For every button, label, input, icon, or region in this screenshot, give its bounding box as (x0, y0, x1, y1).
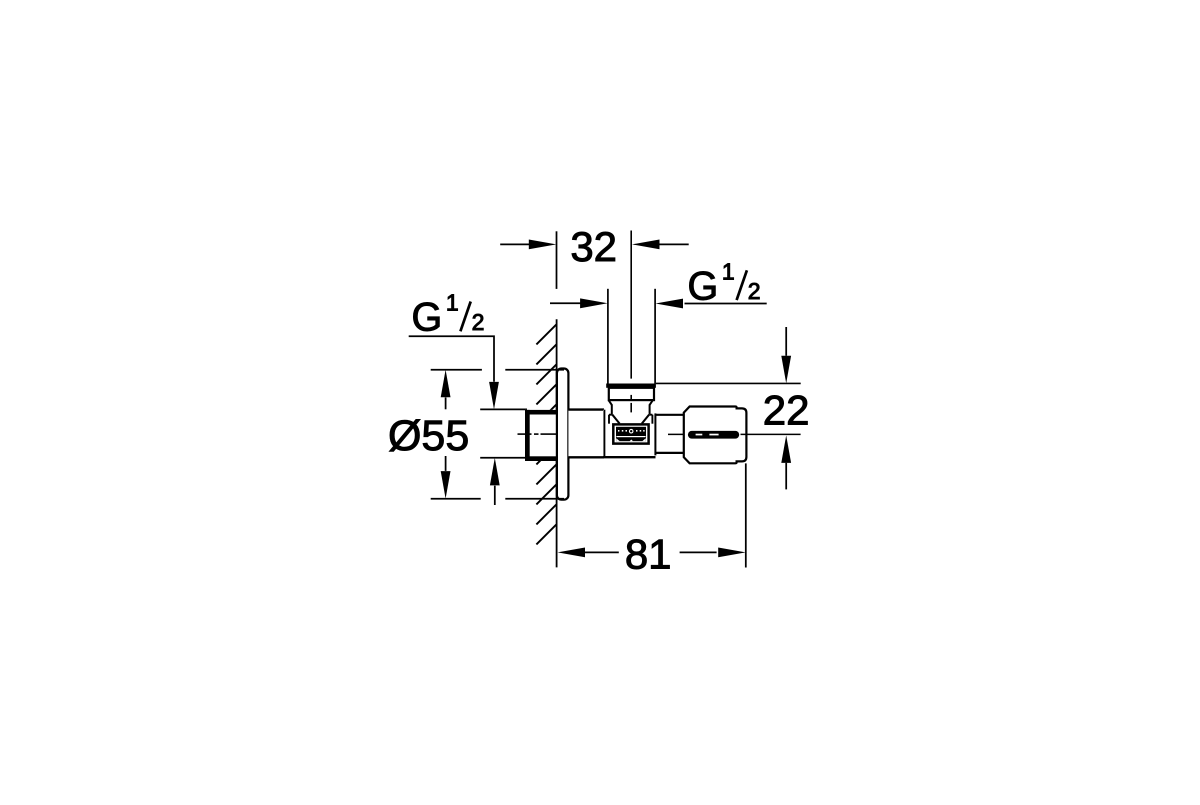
wall hatching (536, 324, 556, 544)
dim 81 arrow right (718, 548, 746, 558)
dim dia55 dimension line lower (445, 456, 447, 471)
dim G1/2 outlet dimension line left (550, 302, 581, 304)
dim 32 arrow right (632, 240, 660, 250)
logo plate (613, 424, 648, 443)
outlet shoulder band (thick) (606, 384, 656, 388)
arrow up to inlet pipe bottom (494, 486, 496, 505)
dim 32 dimension line left (500, 243, 530, 245)
dim 32 arrow left (529, 240, 557, 250)
dim G1/2 outlet arrow left (580, 298, 608, 308)
centerline left (dash-dot) (518, 433, 557, 435)
dim 22 dimension line upper (785, 327, 787, 356)
outlet funnel throat (609, 400, 653, 415)
dim 22 dimension line lower (785, 463, 787, 490)
wall line (556, 319, 558, 567)
dia55 extension line bottom (431, 498, 564, 500)
centerline right (before nut) (668, 433, 685, 435)
fraction slash (inlet) (460, 302, 470, 332)
right neck (655, 415, 684, 453)
svg-text:2: 2 (748, 278, 761, 304)
wall flange (escutcheon) (557, 369, 569, 500)
dim 32 extension line (wall face) (556, 231, 558, 289)
centerline right (after nut) (741, 433, 801, 435)
dim G1/2 outlet arrow right (656, 299, 684, 309)
GROHE logo fill (616, 427, 646, 441)
fraction slash (outlet) (737, 270, 747, 300)
body step edge (603, 410, 605, 458)
G1/2 left extension line bottom (pipe bottom) (480, 457, 527, 459)
svg-text:2: 2 (472, 309, 485, 335)
svg-text:G: G (412, 296, 443, 340)
dim dia55 arrow up (441, 370, 451, 398)
dim 81 dimension line left (585, 551, 619, 553)
body right face (654, 413, 656, 455)
dim 81 extension line (nut face) (745, 463, 747, 567)
funnel outer edges (609, 415, 652, 424)
svg-text:G: G (688, 265, 719, 309)
svg-text:81: 81 (625, 530, 672, 577)
dia55 extension line top (431, 369, 564, 371)
outlet pipe G1/2 vertical lines (608, 289, 655, 384)
compression nut (684, 407, 747, 464)
valve body block (603, 410, 655, 457)
nut slot (688, 431, 739, 439)
leader line G1/2 inlet (409, 336, 494, 382)
dim 22 arrow down (781, 356, 791, 384)
G1/2 left extension line top (pipe top) (480, 408, 527, 410)
outlet centerline vertical (630, 231, 632, 413)
dim 81 dimension line right (680, 551, 717, 553)
dim G1/2 outlet leader line right (685, 303, 767, 305)
svg-text:1: 1 (722, 258, 735, 284)
dim 22 extension line (outlet shoulder) (656, 382, 801, 384)
outlet nut (609, 388, 654, 400)
dim 22 arrow up (781, 435, 791, 463)
svg-text:32: 32 (570, 223, 617, 270)
leader arrow down to inlet pipe top (489, 382, 499, 410)
svg-text:Ø55: Ø55 (388, 412, 469, 460)
dim dia55 dimension line upper (445, 398, 447, 410)
dim 81 arrow left (558, 548, 586, 558)
svg-text:1: 1 (446, 290, 459, 316)
valve body neck (flange to block) (568, 410, 603, 458)
funnel V cone (612, 415, 649, 424)
svg-text:22: 22 (763, 387, 810, 434)
inlet pipe G1/2 (behind wall) (525, 410, 557, 461)
dim 32 dimension line right (659, 243, 689, 245)
dim dia55 arrow down (441, 471, 451, 499)
